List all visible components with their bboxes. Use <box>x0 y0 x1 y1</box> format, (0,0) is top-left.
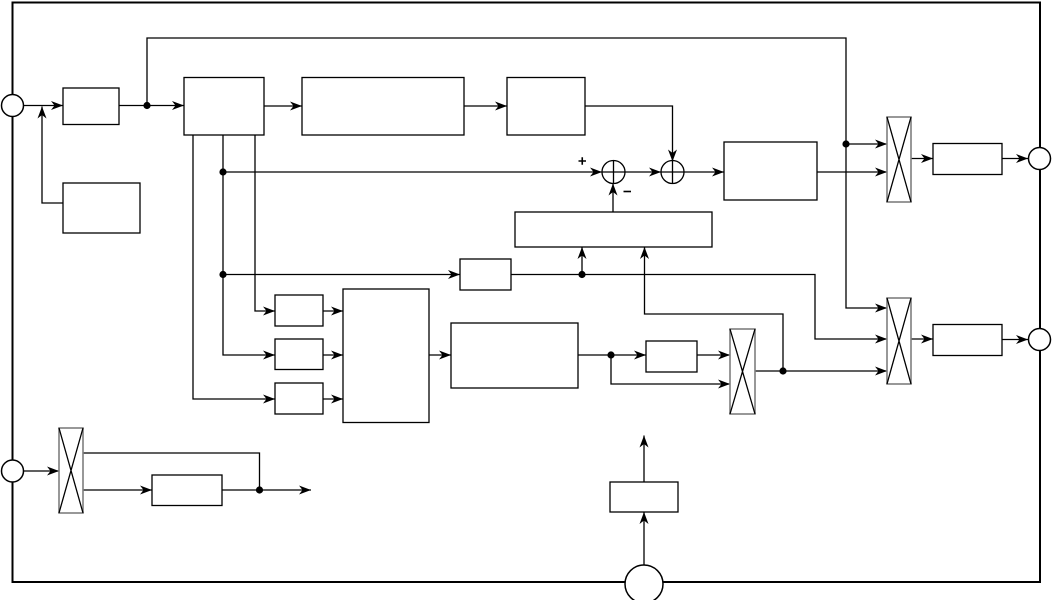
block B15 <box>343 289 429 423</box>
junction node D6 <box>607 351 614 358</box>
block B16 <box>152 475 222 506</box>
block B1 <box>63 88 119 125</box>
block B10 <box>646 341 697 372</box>
wire mux MX2 to block B7 <box>911 338 933 340</box>
junction node D2 <box>842 140 849 147</box>
block B11 <box>460 259 511 290</box>
summer S1 <box>602 161 625 184</box>
wire block B2 bottom column 3 down to block B12 <box>255 135 275 311</box>
wire summer S2 to block B5 <box>684 171 724 173</box>
label minus sign at summer S1 <box>624 191 632 193</box>
junction node D5 <box>578 271 585 278</box>
block B18 <box>63 183 140 233</box>
wire block B1 to block B2 <box>119 105 184 107</box>
wire top feedback from node D1 over the top to mux MX2 input 1 <box>147 38 887 308</box>
block B13 <box>275 339 323 370</box>
block B3 <box>302 78 464 136</box>
block B12 <box>275 295 323 326</box>
input port 1 <box>2 95 24 117</box>
block B4 <box>507 78 585 136</box>
block B2 <box>184 78 264 136</box>
wire block B8 top up into summer S1 minus input <box>612 184 614 213</box>
wire node D6 down to mux MX3 input 2 <box>611 355 730 384</box>
output port 4 <box>1029 329 1051 351</box>
block B5 <box>724 142 817 200</box>
label plus sign at summer S1 <box>579 157 587 165</box>
wire block B4 down into summer S2 <box>585 106 673 162</box>
wire node D7 up and left into block B8 bottom <box>645 247 784 371</box>
mux MX4 <box>59 428 83 513</box>
junction node D3 <box>219 168 226 175</box>
summer S2 <box>661 161 684 184</box>
wire block B13 to block B15 input 2 <box>323 354 343 356</box>
wire block B16 out through node D8 to open arrow <box>222 489 311 491</box>
wire node D3 to summer S1 plus input <box>223 171 602 173</box>
block B17 <box>610 482 678 512</box>
wire block B10 to mux MX3 input 1 <box>697 354 730 356</box>
wire block B2 bottom column 2 down to block B13 <box>223 135 275 355</box>
junction node D4 <box>219 271 226 278</box>
wire node D4 to block B11 <box>223 274 460 276</box>
mux MX1 <box>887 117 911 202</box>
wire mux MX1 to block B6 <box>911 158 933 160</box>
wire block B2 to block B3 <box>264 105 302 107</box>
wire block B9 to block B10 <box>578 354 646 356</box>
wire block B3 to block B4 <box>464 105 507 107</box>
wire block B11 to mux MX2 input 2 <box>511 275 887 340</box>
block B14 <box>275 383 323 414</box>
junction node D8 <box>256 486 263 493</box>
wire block B14 to block B15 input 3 <box>323 398 343 400</box>
wire block B2 bottom column 1 down to block B14 <box>193 135 275 399</box>
wire feedback from block B18 up into input wire <box>42 107 63 204</box>
wire mux MX4 output 2 to block B16 <box>83 489 152 491</box>
block B9 <box>451 323 578 388</box>
wire summer S1 to summer S2 <box>625 171 661 173</box>
wire node D5 up into block B8 bottom <box>581 247 583 275</box>
wire block B17 up to open arrow <box>643 436 645 483</box>
wire input port 1 to block B1 <box>24 105 64 107</box>
junction node D1 <box>143 102 150 109</box>
block B6 <box>933 144 1002 175</box>
wire input port 2 to mux MX4 <box>24 470 60 472</box>
bottom port 5 <box>625 565 663 600</box>
wire bottom port 5 up into block B17 <box>643 512 645 565</box>
wire block B6 to output port 3 <box>1002 158 1028 160</box>
mux MX3 <box>730 329 755 414</box>
wire block B7 to output port 4 <box>1002 339 1028 341</box>
junction node D7 <box>779 367 786 374</box>
input port 2 <box>2 460 24 482</box>
wire mux MX4 output 1 around to node D8 <box>83 453 260 490</box>
mux MX2 <box>887 298 911 384</box>
output port 3 <box>1029 148 1051 170</box>
wire mux MX3 to mux MX2 input 3 <box>755 370 887 372</box>
block B7 <box>933 325 1002 356</box>
block B8 <box>515 212 712 247</box>
wire block B5 to mux MX1 input 2 <box>817 171 887 173</box>
wire block B12 to block B15 input 1 <box>323 310 343 312</box>
wire node D2 to mux MX1 input 1 <box>846 143 887 145</box>
wire block B15 to block B9 <box>429 354 451 356</box>
